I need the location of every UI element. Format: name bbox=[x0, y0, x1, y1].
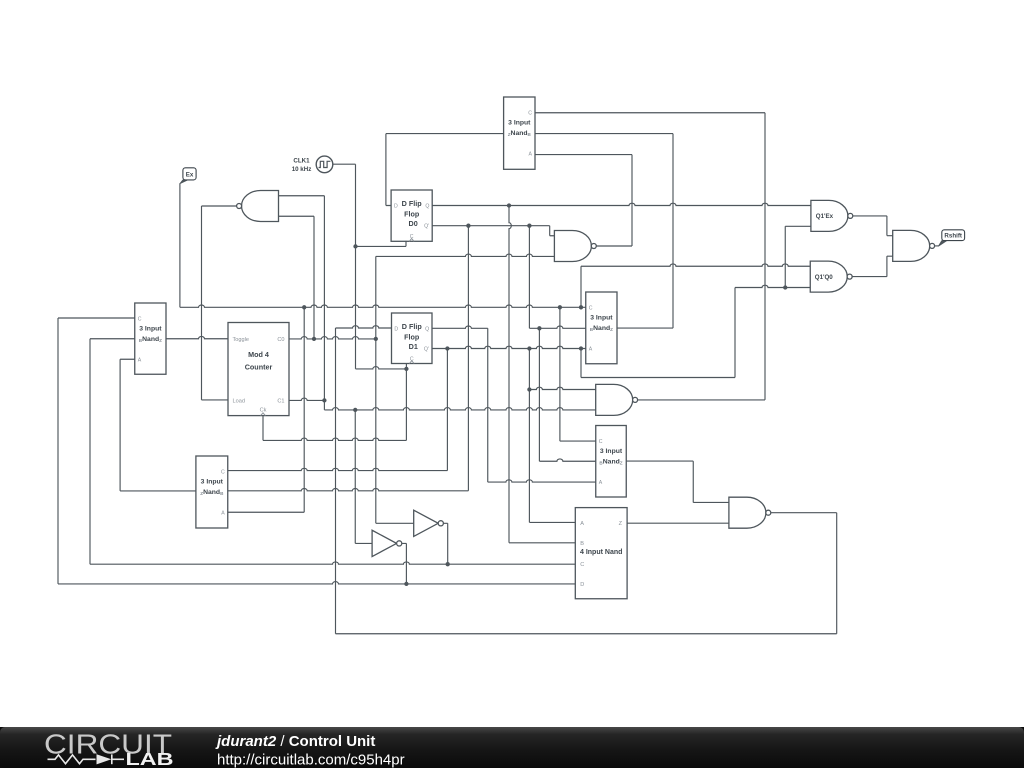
wire C1 up to gate G0 input A bbox=[279, 196, 325, 401]
svg-text:Load: Load bbox=[233, 398, 245, 404]
svg-text:3 Input: 3 Input bbox=[590, 314, 613, 321]
wire NOT-C1 rail to U9.D bbox=[58, 582, 575, 584]
wire U1.A from gate G2 output bbox=[535, 155, 632, 246]
svg-text:C: C bbox=[138, 316, 142, 322]
svg-text:A: A bbox=[138, 357, 142, 363]
svg-text:D: D bbox=[394, 327, 398, 333]
svg-text:Q: Q bbox=[425, 204, 429, 210]
junction C1 branch to inverter bbox=[353, 408, 357, 412]
inverter X1 (NOT C0) bbox=[414, 510, 439, 536]
3-input NAND U7 (middle right) bbox=[586, 292, 617, 364]
wire C0 to inverter X1 input bbox=[376, 522, 414, 524]
junction C0 branch x=376 bbox=[374, 337, 378, 341]
wire Ex flag tail bbox=[179, 183, 181, 307]
NAND gate G5 (lower right) bbox=[729, 497, 766, 528]
NAND gate G6 (output) bbox=[893, 230, 930, 261]
NAND gate G3 Q1'Q0 bbox=[810, 261, 847, 292]
svg-text:A: A bbox=[529, 151, 533, 157]
wire gate G0 output to Mod4.Load bbox=[202, 206, 238, 400]
wire U9.Z to gate G5 input B bbox=[627, 522, 729, 524]
svg-text:jdurant2 / Control Unit: jdurant2 / Control Unit bbox=[215, 733, 375, 750]
svg-text:3 Input: 3 Input bbox=[139, 325, 162, 332]
junction D0.Q' branch x=529 bbox=[527, 224, 531, 228]
svg-text:C: C bbox=[580, 562, 584, 568]
wire C0 up to gate G0 input B bbox=[279, 216, 315, 339]
D flip-flop D0 bbox=[391, 190, 432, 241]
junction NOT-C1 junction bbox=[404, 582, 408, 586]
3-input NAND U1 (top) bbox=[504, 97, 535, 169]
wire U1.B from U7.Z bbox=[535, 134, 673, 329]
wire D0.Q' down to U6.B bbox=[228, 226, 469, 491]
wire D1.Q' to gate G4 input A bbox=[529, 387, 595, 389]
wire U6.C from D1.Q' bbox=[228, 349, 448, 471]
NAND gate G4 (D1 feedback) bbox=[596, 384, 633, 415]
junction D1.Q' branch x=529 bbox=[527, 346, 531, 350]
wire C0 column bbox=[375, 256, 377, 523]
svg-text:Q: Q bbox=[425, 327, 429, 333]
svg-text:BNandZ: BNandZ bbox=[139, 336, 162, 343]
wire gate G3 output to G6 bbox=[852, 256, 893, 276]
wire D1.Q' down to U9.A bbox=[529, 349, 575, 523]
svg-text:Z: Z bbox=[619, 521, 623, 527]
junction C1 branch bbox=[322, 398, 326, 402]
wire clock to D1.C bbox=[356, 367, 407, 369]
wire D1.D from gate G5 output bbox=[336, 326, 837, 634]
svg-text:10 kHz: 10 kHz bbox=[292, 166, 312, 173]
svg-text:Q': Q' bbox=[424, 347, 429, 353]
svg-text:D0: D0 bbox=[409, 219, 418, 228]
junction C0 branch x=314 bbox=[312, 337, 316, 341]
NAND gate G2 (Q0' C0) bbox=[554, 231, 591, 262]
svg-text:ZNandB: ZNandB bbox=[508, 130, 532, 137]
wire Ex net down to U6.A bbox=[228, 307, 304, 512]
wire gate G1 output to G6 bbox=[853, 216, 893, 236]
wire D1.Q' row to U7.A bbox=[432, 346, 586, 348]
wire D0.Q' down to U7.B bbox=[529, 226, 585, 329]
wire Mod4.C1 row bbox=[289, 398, 324, 400]
svg-text:A: A bbox=[580, 521, 584, 527]
net flag Ex bbox=[180, 180, 188, 184]
svg-text:D Flip: D Flip bbox=[402, 199, 423, 208]
wire NOT-C1 up to U5.C bbox=[58, 318, 135, 584]
wire CLK1 output bbox=[333, 164, 356, 369]
voltage source CLK1 10 kHz square wave bbox=[316, 156, 333, 173]
svg-text:C: C bbox=[221, 469, 225, 475]
svg-text:C: C bbox=[599, 439, 603, 445]
svg-text:3 Input: 3 Input bbox=[600, 448, 623, 455]
net flag Rshift bbox=[938, 241, 947, 247]
wire U5.A from U6.Z bbox=[120, 359, 196, 491]
3-input NAND U8 (right) bbox=[596, 426, 627, 498]
junction clock net at D0 clock branch bbox=[353, 244, 357, 248]
svg-text:C1: C1 bbox=[277, 398, 284, 404]
4-input NAND U9 bbox=[575, 508, 627, 599]
svg-text:D: D bbox=[580, 582, 584, 588]
inverter X2 (NOT C1) bbox=[372, 530, 397, 556]
wire D0.Q down to U9.B bbox=[509, 206, 575, 543]
svg-text:A: A bbox=[589, 346, 593, 352]
junction Ex net at x=581 bbox=[579, 305, 583, 309]
junction D0.Q' net at U7.B wire bbox=[537, 326, 541, 330]
svg-text:http://circuitlab.com/c95h4pr: http://circuitlab.com/c95h4pr bbox=[217, 752, 405, 768]
wire inverter X1 output bbox=[444, 523, 448, 564]
svg-text:Flop: Flop bbox=[404, 332, 420, 341]
svg-text:Flop: Flop bbox=[404, 209, 420, 218]
CircuitLab logo resistor and diode glyph bbox=[48, 754, 125, 764]
svg-text:ZNandB: ZNandB bbox=[200, 489, 224, 496]
wire NOT-C0 rail to U9.C bbox=[90, 562, 575, 564]
svg-text:D Flip: D Flip bbox=[402, 322, 423, 331]
junction Ex net at x=304 bbox=[302, 305, 306, 309]
wire C0 to gate G2 input B bbox=[376, 254, 555, 256]
wire NOT-C0 up to U5.B bbox=[90, 339, 135, 564]
junction D1.Q' branch to gate G4 bbox=[527, 387, 531, 391]
svg-text:Q1'Q0: Q1'Q0 bbox=[815, 274, 834, 281]
svg-text:3 Input: 3 Input bbox=[508, 119, 531, 126]
wire inverter X2 output bbox=[402, 543, 407, 584]
svg-text:Toggle: Toggle bbox=[233, 337, 249, 343]
wire Mod4.C0 row bbox=[289, 337, 376, 339]
wire D1.C stub bbox=[405, 364, 407, 369]
svg-text:Rshift: Rshift bbox=[944, 232, 962, 239]
3-input NAND U5 (left) bbox=[135, 303, 166, 374]
junction clock net at D1 clock branch bbox=[404, 367, 408, 371]
svg-text:Counter: Counter bbox=[245, 363, 273, 372]
wire clock to Mod4.Ck bbox=[263, 369, 406, 441]
NAND gate G0 (mirrored, drives Load) bbox=[242, 191, 279, 222]
wire U1.C from gate G4 output bbox=[535, 113, 765, 400]
3-input NAND U6 (lower left) bbox=[196, 456, 228, 528]
wire C1 to gate G4 input B bbox=[324, 400, 595, 410]
svg-text:A: A bbox=[599, 480, 603, 486]
svg-text:Ex: Ex bbox=[186, 172, 194, 179]
wire up to gate G1 input B bbox=[785, 226, 811, 287]
svg-text:D: D bbox=[394, 204, 398, 210]
junction D1.Q' branch x=581 bbox=[579, 346, 583, 350]
NAND gate G1 Q1'Ex bbox=[811, 200, 848, 231]
svg-text:Q1'Ex: Q1'Ex bbox=[816, 213, 834, 220]
wire U5.Z to Mod4.Toggle bbox=[166, 336, 228, 338]
wire D1.Q row bbox=[432, 326, 596, 482]
junction Ex net at x=560 bbox=[558, 305, 562, 309]
junction G1/G3 input-B junction bbox=[783, 285, 787, 289]
svg-text:LAB: LAB bbox=[126, 749, 174, 768]
junction D1.Q' branch x=447 bbox=[445, 346, 449, 350]
svg-text:BNandZ: BNandZ bbox=[590, 325, 613, 332]
svg-text:A: A bbox=[221, 510, 225, 516]
svg-text:CLK1: CLK1 bbox=[293, 158, 310, 165]
wire D0.Q to gate G1 input A bbox=[432, 203, 811, 205]
D flip-flop D1 bbox=[392, 313, 433, 364]
wire Ex net up to gate G3 input A bbox=[581, 264, 810, 307]
svg-text:C: C bbox=[528, 110, 532, 116]
wire Ex net down to U8.C bbox=[560, 307, 596, 441]
wire U1.Z to D0.D bbox=[386, 134, 504, 206]
junction NOT-C0 junction bbox=[446, 562, 450, 566]
svg-text:BNandZ: BNandZ bbox=[599, 458, 622, 465]
wire D0.Q' down to U8.B bbox=[539, 328, 595, 461]
junction D0.Q branch bbox=[507, 203, 511, 207]
footer bar bbox=[0, 727, 1024, 768]
wire D0.Q' row bbox=[432, 226, 554, 236]
wire U8.Z to gate G5 input A bbox=[626, 461, 729, 502]
svg-text:Q': Q' bbox=[424, 224, 429, 230]
svg-text:C: C bbox=[589, 305, 593, 311]
junction D0.Q' branch x=468 bbox=[466, 224, 470, 228]
svg-text:3 Input: 3 Input bbox=[201, 478, 224, 485]
wire Ex net horizontal to U7.C bbox=[180, 305, 586, 307]
svg-text:Mod 4: Mod 4 bbox=[248, 350, 269, 359]
Mod 4 counter U4 bbox=[228, 323, 289, 416]
wire gate G6 output to Rshift bbox=[935, 245, 939, 247]
wire clock to D0.C bbox=[356, 241, 407, 247]
wire D1.Q' to gates G1/G3 input B bbox=[581, 285, 810, 377]
svg-text:4 Input Nand: 4 Input Nand bbox=[580, 549, 622, 556]
svg-text:B: B bbox=[580, 541, 584, 547]
wire C1 to inverter X2 input bbox=[355, 410, 372, 544]
svg-text:D1: D1 bbox=[409, 342, 418, 351]
svg-text:C0: C0 bbox=[277, 337, 284, 343]
